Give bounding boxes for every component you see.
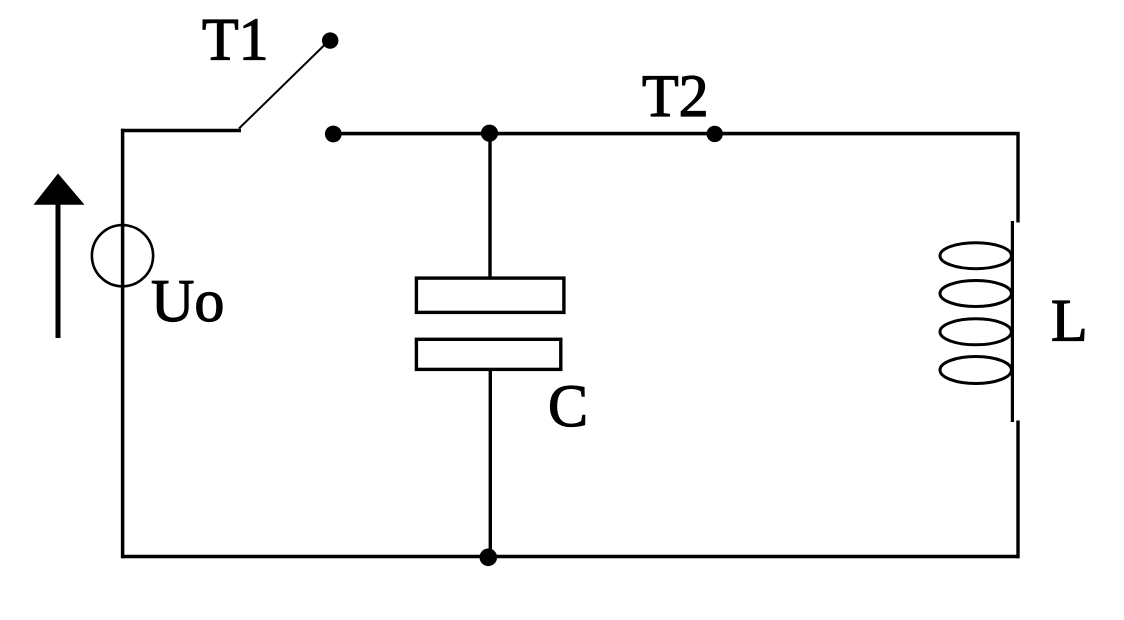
switch T1 top contact dot [322, 32, 338, 48]
wire top-left horizontal [121, 129, 241, 132]
switch T1 right contact dot [325, 126, 342, 143]
svg-text:L: L [1051, 288, 1088, 354]
inductor L coil loop 1 [940, 243, 1011, 269]
node T2 dot [707, 126, 723, 142]
wire left vertical [121, 129, 125, 558]
voltage source Uo circle [92, 225, 153, 286]
svg-text:T1: T1 [202, 7, 269, 73]
svg-text:Uo: Uo [151, 268, 224, 334]
arrow head [34, 174, 85, 205]
inductor L coil loop 4 [940, 357, 1011, 384]
wire right vertical upper [1016, 132, 1019, 223]
wire bottom horizontal [121, 555, 1020, 558]
capacitor C bottom plate [416, 339, 560, 369]
wire right vertical middle (inductor segment) [1011, 221, 1014, 422]
wire top-right horizontal [333, 132, 1020, 136]
node junction top (capacitor tap) [481, 125, 498, 142]
capacitor lead upper [488, 133, 491, 277]
capacitor C top plate [416, 278, 564, 312]
switch T1 blade [239, 44, 326, 129]
node junction bottom [480, 549, 498, 567]
wire right vertical lower [1016, 421, 1019, 559]
capacitor lead lower [489, 370, 492, 557]
inductor L coil loop 2 [940, 281, 1011, 307]
inductor L coil loop 3 [940, 319, 1011, 345]
svg-text:T2: T2 [642, 63, 709, 129]
svg-text:C: C [548, 373, 588, 439]
arrow shaft (voltage direction) [56, 202, 61, 338]
